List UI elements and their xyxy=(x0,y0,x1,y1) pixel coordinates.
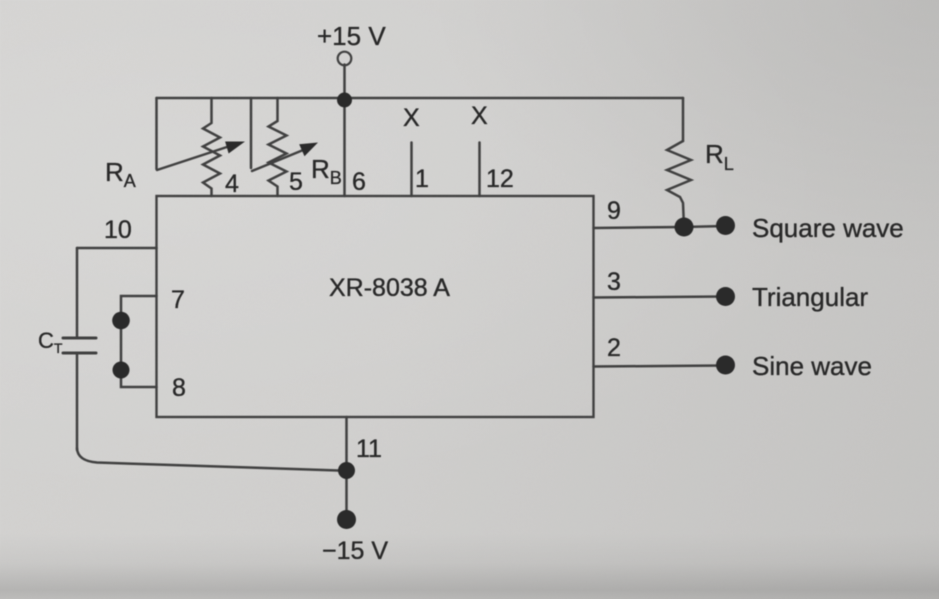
pin 10 wire xyxy=(77,247,157,250)
arrowhead RA xyxy=(225,142,245,154)
bottom return wire (curved) xyxy=(77,448,347,471)
sine wave output terminal dot xyxy=(716,356,735,375)
potentiometer RA zigzag xyxy=(203,98,220,196)
potentiometer RB wiper arrow xyxy=(252,151,302,172)
resistor RL zigzag xyxy=(667,141,691,227)
arrowhead RB xyxy=(299,143,318,157)
node dot at +15V rail junction xyxy=(337,93,352,108)
top rail wire xyxy=(157,97,684,100)
wire between node dots 7-8 xyxy=(120,320,123,370)
node dot lower (pin8 loop) xyxy=(113,362,130,379)
wire junction to -15V terminal xyxy=(345,470,348,519)
power terminal +15 V xyxy=(338,52,352,66)
wire left vertical upper (to CT top plate) xyxy=(76,248,79,338)
pin 12 stub wire xyxy=(478,143,481,197)
pin 2 wire xyxy=(594,366,726,367)
capacitor CT top plate xyxy=(63,337,96,340)
wire left leg of RA xyxy=(155,98,158,169)
pin 3 wire xyxy=(594,297,726,298)
potentiometer RA wiper arrow xyxy=(157,146,230,170)
node dot upper (pin7 loop) xyxy=(112,312,130,330)
capacitor CT bottom plate xyxy=(63,352,96,355)
triangular output terminal dot xyxy=(716,287,735,306)
wire +15V to rail xyxy=(343,65,346,99)
-15V terminal dot xyxy=(337,510,356,529)
potentiometer RB zigzag xyxy=(269,98,287,196)
wire rail to RL xyxy=(682,98,685,141)
pin 1 stub wire xyxy=(410,143,413,197)
square wave output terminal dot xyxy=(716,216,735,235)
pin 8 wire xyxy=(121,370,157,387)
wire middle leg (RB left) xyxy=(250,98,253,168)
wire left vertical lower (CT to bottom return) xyxy=(76,353,79,450)
pin 9 wire xyxy=(594,227,685,228)
node dot pin11 junction xyxy=(338,462,355,479)
pin 7 wire xyxy=(121,296,157,320)
pin 11 wire xyxy=(345,417,348,470)
IC U1 XR-8038 A box xyxy=(157,196,594,417)
pin 6 wire (+15V down to box) xyxy=(343,98,346,196)
scan grain overlay xyxy=(0,0,1,1)
wire junction to square-wave terminal xyxy=(684,226,725,227)
node dot pin9/RL junction xyxy=(675,218,694,237)
